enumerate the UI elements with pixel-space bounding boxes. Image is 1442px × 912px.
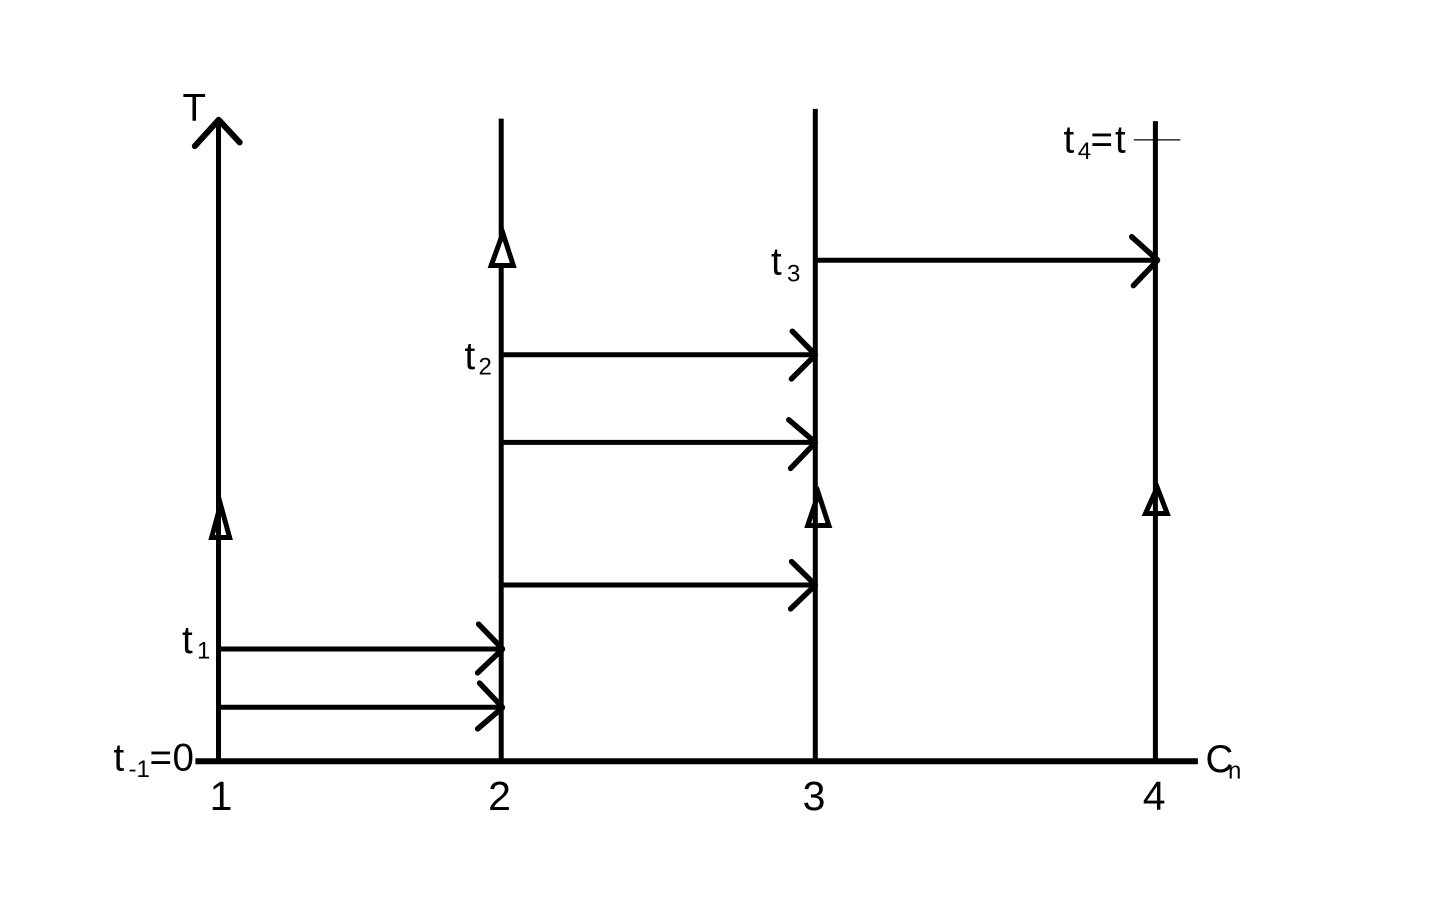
vertical line 1 (T axis): [216, 121, 221, 763]
svg-text:-1: -1: [129, 756, 150, 783]
open arrowhead on line 1: [212, 505, 230, 538]
open arrowhead on line 3: [808, 494, 829, 526]
svg-text:2: 2: [488, 773, 511, 819]
svg-text:t: t: [465, 335, 476, 378]
svg-text:3: 3: [803, 773, 826, 819]
svg-text:1: 1: [197, 637, 210, 664]
svg-text:t: t: [114, 737, 125, 780]
vertical line 4: [1153, 121, 1158, 763]
svg-text:n: n: [1228, 758, 1241, 785]
svg-text:t: t: [1064, 119, 1075, 162]
svg-text:T: T: [183, 87, 207, 130]
svg-text:1: 1: [210, 773, 233, 819]
svg-text:t: t: [182, 619, 193, 662]
open arrowhead on line 2: [491, 233, 513, 265]
svg-text:t: t: [1115, 119, 1126, 162]
open arrowhead on line 4: [1146, 487, 1168, 513]
vertical line 3: [813, 109, 818, 763]
svg-text:3: 3: [787, 261, 800, 288]
svg-text:t: t: [771, 241, 782, 284]
svg-text:0: 0: [173, 737, 194, 780]
arrow below t1 (line1 to line2): [219, 683, 502, 729]
arrow t1 (line1 to line2): [219, 624, 502, 673]
svg-text:=: =: [150, 737, 172, 780]
svg-text:2: 2: [479, 353, 492, 380]
tick at t4 on line 4: [1134, 139, 1181, 141]
arrow t3 (line3 to line4): [815, 237, 1157, 286]
svg-text:4: 4: [1143, 773, 1166, 819]
arrow low (line2 to line3): [501, 562, 815, 609]
svg-text:4: 4: [1078, 138, 1091, 165]
arrow t2 (line2 to line3): [501, 331, 815, 379]
svg-text:=: =: [1091, 119, 1113, 162]
arrow mid (line2 to line3): [501, 420, 815, 469]
axis Cn (horizontal): [195, 758, 1198, 764]
vertical line 2: [499, 119, 504, 763]
T axis arrowhead: [195, 120, 240, 146]
